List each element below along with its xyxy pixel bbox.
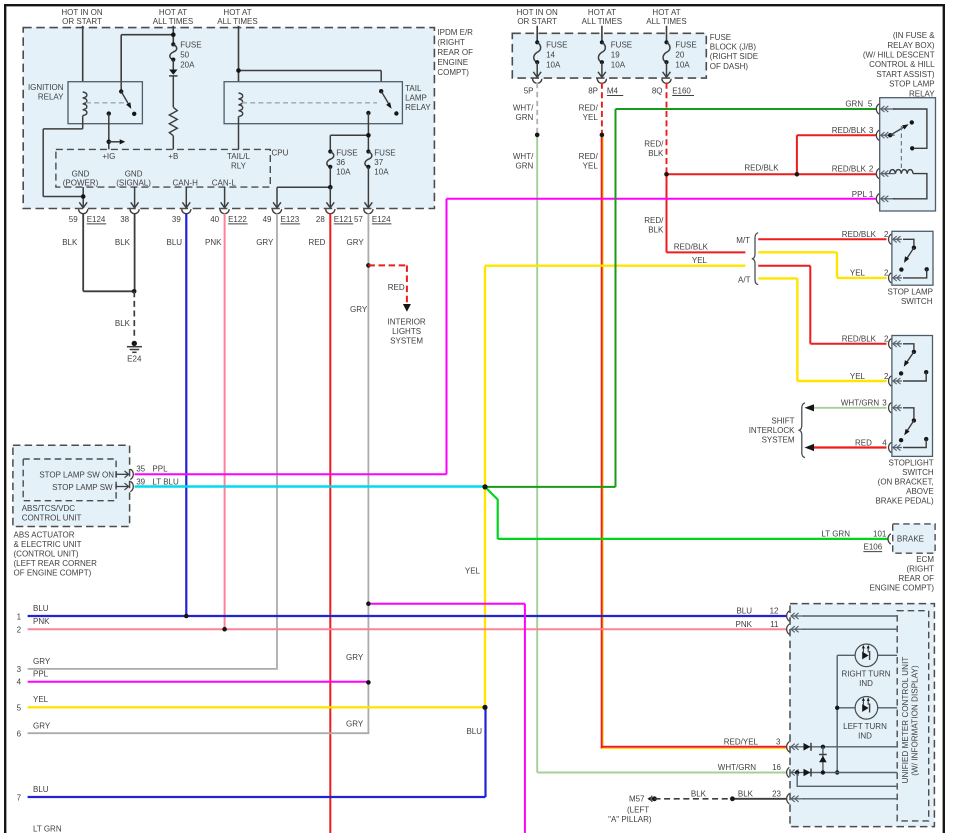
svg-text:5P: 5P [524,86,534,95]
pin TAIL/L RLY [227,152,251,170]
brace shift interlock [798,403,805,458]
diode D4 vertical [819,747,827,773]
stop lamp relay internal contact wiring [893,109,927,151]
connector M57 (left A pillar) [608,795,657,825]
fuse 19 10A [598,40,632,69]
node HOT AT ALL TIMES (fuse 50) [153,8,193,26]
svg-text:5: 5 [17,704,22,713]
svg-text:STOP LAMP: STOP LAMP [888,287,934,296]
svg-text:RELAY: RELAY [909,89,935,98]
svg-text:39: 39 [136,478,145,487]
svg-text:SWITCH: SWITCH [901,297,933,306]
svg-text:19: 19 [611,51,620,60]
svg-text:ALL TIMES: ALL TIMES [646,17,686,26]
wire RED/BLK junction up to relay pin 3 [797,135,876,174]
svg-text:10A: 10A [374,168,389,177]
wire LT BLU from ABS pin 39 [135,485,485,487]
svg-text:FUSE: FUSE [180,41,201,50]
unified meter pin 11 connector [787,624,898,634]
label TAIL LAMP RELAY [405,84,431,112]
wire YEL A/T to stoplight switch [758,278,886,381]
svg-text:CONTROL & HILL: CONTROL & HILL [869,60,935,69]
svg-text:(RIGHT: (RIGHT [437,38,465,47]
svg-text:2: 2 [884,268,889,277]
svg-text:+IG: +IG [102,152,115,161]
wire line 6 GRY [17,721,370,738]
wire BLK to unified meter pin 23 [732,798,786,800]
svg-text:WHT/: WHT/ [513,152,534,161]
wire GRY from connector 49 [256,213,277,669]
svg-text:E24: E24 [127,354,142,363]
node junction fuse 36/37 feed [330,133,370,152]
arrow to interior lights system [403,304,411,312]
label UNIFIED METER CONTROL UNIT (W/ INFORMATION DISPLAY) [901,657,920,784]
svg-text:TAIL: TAIL [405,84,422,93]
stop lamp switch pin 2 bottom connector [850,268,902,283]
svg-text:LT BLU: LT BLU [152,478,179,487]
stop lamp relay pin 3 connector [832,126,895,140]
svg-text:RELAY: RELAY [405,103,431,112]
wire line 7 BLU [17,785,486,802]
svg-text:FUSE: FUSE [611,41,632,50]
label LEFT TURN IND [843,722,887,741]
node junction line 2 / CAN-L PNK [222,627,227,632]
wire diode to resistor [172,76,174,107]
svg-text:HOT IN ON: HOT IN ON [517,8,558,17]
pin GND (POWER) [63,169,99,187]
node junction M57 BLK [730,796,735,801]
svg-text:BLK: BLK [691,789,707,798]
svg-text:BLU: BLU [33,604,49,613]
wire YEL vertical to line 5 [465,266,485,708]
svg-text:10A: 10A [546,61,561,70]
stoplight switch pin RED/BLK 2 connector [842,335,902,349]
stop lamp switch S1 box [892,231,933,285]
svg-text:RIGHT TURN: RIGHT TURN [841,669,890,678]
CPU box [56,149,270,187]
svg-text:ECM: ECM [916,555,934,564]
connector 38 (IPDM) [120,209,139,224]
wire branch to ignition relay switch [121,35,173,92]
stoplight switch lower contacts [899,408,929,448]
wire GND(POWER) to connector 59 [81,187,86,206]
svg-text:3: 3 [882,399,887,408]
connector 40 E122 (IPDM) [210,209,247,224]
svg-text:GRN: GRN [516,113,534,122]
wire RED/BLK junction to relay pin 2 [797,173,876,175]
svg-text:SHIFT: SHIFT [771,416,794,425]
svg-text:FUSE: FUSE [675,41,696,50]
svg-text:INTERIOR: INTERIOR [387,317,425,326]
svg-text:RED: RED [309,238,326,247]
right turn indicator lamp [837,644,897,667]
svg-text:PPL: PPL [33,669,49,678]
svg-text:RED/BLK: RED/BLK [674,243,709,252]
stop lamp relay pin 5 connector [876,104,894,114]
svg-text:HOT AT: HOT AT [159,8,187,17]
pin +B [168,152,178,161]
label RIGHT TURN IND [841,669,890,688]
connector arrows into IPDM bottom connectors [79,202,372,208]
svg-text:7: 7 [17,793,22,802]
svg-text:BLU: BLU [736,607,752,616]
svg-text:RED/BLK: RED/BLK [832,164,867,173]
wire CAN-L to connector 40 [224,187,226,206]
svg-text:GRN: GRN [516,161,534,170]
svg-text:YEL: YEL [583,113,599,122]
unified meter pin 16 connector (WHT/GRN) [718,763,805,777]
connector 8Q E160 [652,79,694,96]
svg-text:57: 57 [354,215,363,224]
svg-text:4: 4 [882,438,887,447]
tail lamp relay actuator dashed link [242,102,377,104]
label IPDM E/R [437,28,473,77]
node junction RED/BLK split [664,172,669,177]
wire line 2 PNK to unified meter pin 11 [17,617,787,634]
pin CAN-H [173,178,199,187]
svg-text:STOPLIGHT: STOPLIGHT [888,458,933,467]
svg-text:38: 38 [120,215,129,224]
diode D3 pin 16 [795,769,897,777]
ABS pin 39 STOP LAMP SW [52,478,179,492]
connector 39 (IPDM) [172,209,191,224]
svg-text:LT GRN: LT GRN [33,825,62,834]
wire GRN to stop lamp relay pin 5 [616,100,877,110]
svg-text:BLK: BLK [115,238,131,247]
wire ignition relay output to +IG [108,114,110,150]
svg-text:RED/BLK: RED/BLK [832,126,867,135]
svg-text:ABS ACTUATOR: ABS ACTUATOR [14,531,75,540]
svg-text:HOT IN ON: HOT IN ON [61,8,102,17]
fuse 14 10A [534,40,568,69]
pin +IG [102,152,115,161]
label STOPLIGHT SWITCH (ON BRACKET, ABOVE BRAKE PEDAL) [875,458,934,505]
svg-text:(SIGNAL): (SIGNAL) [116,178,151,187]
svg-text:2: 2 [884,372,889,381]
wire BLU from connector 39 (CAN-H) [167,213,187,616]
svg-text:LEFT TURN: LEFT TURN [843,722,887,731]
node junction YEL/BLU line 5 [482,705,487,710]
svg-text:1: 1 [17,612,22,621]
svg-text:PNK: PNK [33,617,50,626]
wire RED/BLK to stop lamp relay pin 2 [667,164,796,175]
svg-text:BLK: BLK [738,789,754,798]
svg-text:3: 3 [776,737,781,746]
svg-text:3: 3 [17,665,22,674]
ABS/TCS/VDC control unit inner box [23,459,116,501]
svg-text:(CONTROL UNIT): (CONTROL UNIT) [14,550,79,559]
svg-text:16: 16 [772,763,781,772]
connector 57 E124 (IPDM) [354,209,391,224]
svg-text:OF ENGINE COMPT): OF ENGINE COMPT) [14,569,92,578]
svg-text:YEL: YEL [692,256,708,265]
stop lamp relay pin 2 connector [832,164,895,178]
svg-text:RED: RED [388,283,405,292]
unified meter pin 3 connector (RED/YEL) [724,737,805,752]
tail lamp relay switch [366,89,398,116]
svg-text:RELAY: RELAY [38,93,64,102]
wire RED dashed to interior lights system [368,265,407,303]
svg-text:36: 36 [336,158,345,167]
svg-text:YEL: YEL [33,695,49,704]
wire pin16 bypass loop [797,773,897,787]
wire WHT/GRN stoplight switch to shift interlock [814,407,887,409]
node HOT IN ON OR START (J/B) [517,8,558,26]
svg-text:BRAKE PEDAL): BRAKE PEDAL) [875,496,934,505]
wire RED/YEL dashed from 8P [579,83,602,135]
label IGNITION RELAY [28,83,64,102]
wire fuse 50 to diode [172,60,174,70]
svg-text:50: 50 [180,51,189,60]
svg-text:START ASSIST): START ASSIST) [876,70,935,79]
stop lamp switch contacts [899,239,929,278]
node +IG branch junction with right arrow [107,139,126,144]
svg-text:40: 40 [210,215,219,224]
node junction GRY to interior lights tap [366,263,371,268]
svg-text:E122: E122 [228,215,247,224]
wire turn indicator common vertical [835,655,839,774]
svg-text:SYSTEM: SYSTEM [390,336,423,345]
svg-text:LAMP: LAMP [405,94,427,103]
wire line 1 BLU to unified meter pin 12 [17,604,787,621]
svg-text:& ELECTRIC UNIT: & ELECTRIC UNIT [14,540,82,549]
svg-text:RED/: RED/ [644,216,664,225]
arrow WHT/GRN to shift interlock [805,404,815,411]
svg-text:(LEFT REAR CORNER: (LEFT REAR CORNER [14,559,98,568]
ECM BRAKE box [893,524,935,553]
svg-text:10A: 10A [675,61,690,70]
wire BLU vertical to line 7 [466,707,485,797]
svg-text:RED/: RED/ [579,103,599,112]
connector 5P (J/B) [524,79,542,96]
ground E24 [127,341,142,364]
connector 49 E123 (IPDM) [263,209,300,224]
svg-text:CPU: CPU [272,148,289,157]
label FUSE BLOCK (J/B) (RIGHT SIDE OF DASH) [710,33,758,71]
svg-text:INTERLOCK: INTERLOCK [749,426,795,435]
wire fuse 36 to connector 28 [329,187,331,206]
wire fuse 36 output [329,167,331,187]
ignition relay box [68,82,142,124]
svg-text:BLK: BLK [648,226,664,235]
wire branch to tail lamp relay switch [239,71,382,92]
node junction PPL tap to meter area [366,601,371,606]
node junction fuse 50 top [171,32,176,37]
svg-text:20: 20 [675,51,684,60]
IPDM E/R box (right rear of engine compt) [23,28,434,209]
svg-text:OR START: OR START [62,17,102,26]
ABS actuator outer box [13,445,130,526]
svg-text:ABOVE: ABOVE [906,487,934,496]
svg-text:2: 2 [884,335,889,344]
svg-text:5: 5 [868,100,873,109]
svg-text:LIGHTS: LIGHTS [392,327,421,336]
wire BLK from connector 59 [62,213,133,291]
wire ignition relay coil to GND(POWER) [43,116,83,197]
ignition relay actuator dashed link [86,102,126,104]
svg-text:BLK: BLK [62,238,78,247]
svg-text:ENGINE: ENGINE [437,58,468,67]
svg-text:GRY: GRY [350,305,368,314]
svg-text:ALL TIMES: ALL TIMES [153,17,193,26]
svg-text:E124: E124 [87,215,106,224]
svg-text:LT GRN: LT GRN [821,529,850,538]
svg-text:11: 11 [770,620,779,629]
svg-text:YEL: YEL [850,268,866,277]
svg-text:(IN FUSE &: (IN FUSE & [893,31,935,40]
svg-text:(RIGHT: (RIGHT [906,565,934,574]
connector 28 E121 (IPDM) [316,209,353,224]
svg-text:RED/: RED/ [644,140,664,149]
svg-text:35: 35 [136,464,145,473]
svg-text:REAR OF: REAR OF [898,574,934,583]
svg-text:GRY: GRY [256,238,274,247]
fuse 20 10A [663,40,697,69]
stoplight switch pin YEL 2 connector [850,372,902,386]
svg-text:PPL: PPL [152,464,168,473]
wire RED/BLK dashed from 8Q [644,83,666,175]
wire PNK from connector 40 (CAN-L) [205,213,225,629]
wire HOT AT ALL TIMES feed to fuse 50 [172,26,174,45]
wire fuse 14 to connector [533,62,541,77]
wire tail lamp relay coil to TAIL/L RLY pin [238,117,240,150]
svg-text:8Q: 8Q [652,86,663,95]
wire line 5 YEL [17,695,485,712]
node junction tail lamp feed [236,68,241,73]
svg-text:59: 59 [69,215,78,224]
pin GND (SIGNAL) [116,169,151,187]
resistor R1 [169,107,177,135]
wire PPL stop lamp relay pin1 to ABS [447,199,877,475]
wire HOT AT ALL TIMES feed to tail lamp relay coil [238,26,240,93]
svg-text:RELAY BOX): RELAY BOX) [887,41,935,50]
svg-text:8P: 8P [588,86,598,95]
node junction dot brake signal [482,484,487,489]
svg-text:39: 39 [172,215,181,224]
svg-text:CAN-L: CAN-L [212,178,237,187]
wire BLK dashed to ground [115,291,134,339]
svg-text:HOT AT: HOT AT [652,8,680,17]
svg-text:RED: RED [855,438,872,447]
label ABS/TCS/VDC CONTROL UNIT [22,504,82,523]
label INTERIOR LIGHTS SYSTEM [387,317,425,345]
fuse 37 10A [365,149,396,177]
svg-text:(POWER): (POWER) [63,178,99,187]
svg-text:FUSE: FUSE [546,41,567,50]
connector 59 E124 (IPDM) [69,209,106,224]
wire line 3 GRY [17,657,277,674]
ABS pin 35 STOP LAMP SW ON [39,464,168,479]
svg-text:PNK: PNK [736,620,753,629]
svg-text:E123: E123 [281,215,300,224]
label CPU [272,148,289,157]
wire RED/YEL to unified meter pin 3 [579,135,787,749]
svg-text:OR START: OR START [517,17,557,26]
svg-text:STOP LAMP: STOP LAMP [889,80,935,89]
brace M/T-A/T split [736,233,758,285]
fuse 36 10A [327,149,358,177]
svg-text:+B: +B [168,152,178,161]
wire GND(SIGNAL) to connector 38 [134,187,136,206]
svg-text:(RIGHT SIDE: (RIGHT SIDE [710,52,758,61]
svg-text:M/T: M/T [736,236,750,245]
svg-text:GND: GND [72,169,90,178]
svg-text:4: 4 [17,678,22,687]
diode D1 (below fuse 50) [169,70,177,76]
svg-text:12: 12 [770,607,779,616]
svg-text:49: 49 [263,215,272,224]
label (IN FUSE & RELAY BOX) (W/ HILL DESCENT CONTROL & HILL START ASSIST) STOP LAMP RELAY [863,31,935,98]
svg-text:FUSE: FUSE [374,149,395,158]
svg-text:101: 101 [873,529,887,538]
svg-text:14: 14 [546,51,555,60]
wire WHT/GRN dashed from 5P [513,83,537,135]
wire YEL M/T to stop lamp switch pin 2 [758,252,886,278]
svg-text:(ON BRACKET,: (ON BRACKET, [878,477,934,486]
wire RED/BLK down to M/T-A/T brace [644,174,745,252]
svg-text:(W/ HILL DESCENT: (W/ HILL DESCENT [863,51,935,60]
node junction 5P dashed-solid [535,133,540,138]
wire line 4 PPL [17,669,369,686]
svg-text:HOT AT: HOT AT [588,8,616,17]
stoplight switch pin WHT/GRN 3 connector [841,399,902,413]
svg-text:E160: E160 [672,86,691,95]
wire feed to fuse 14 [536,26,538,43]
node junction line 4 tap [366,680,371,685]
unified meter control unit outer box [790,604,934,827]
svg-text:ALL TIMES: ALL TIMES [217,17,257,26]
tail lamp relay coil [239,93,243,117]
unified meter inner box (label area) [897,611,929,821]
svg-text:10A: 10A [611,61,626,70]
svg-text:2: 2 [884,230,889,239]
svg-text:(W/ INFORMATION DISPLAY): (W/ INFORMATION DISPLAY) [910,665,919,776]
node junction stop lamp relay pin2/pin3 [795,172,800,177]
svg-text:"A" PILLAR): "A" PILLAR) [608,815,652,824]
svg-text:E106: E106 [864,542,883,551]
svg-text:ALL TIMES: ALL TIMES [582,17,622,26]
wire CAN-H to connector 39 [185,187,187,206]
connector 101 E106 [863,534,890,552]
svg-text:YEL: YEL [583,161,599,170]
svg-text:10A: 10A [336,168,351,177]
wire fuse 19 to connector [598,62,606,77]
wire GRY from connector 57 [346,213,368,733]
svg-text:RED/BLK: RED/BLK [744,164,779,173]
wire PPL ABS pin 35 [135,473,447,475]
node junction line 1 / CAN-H BLU [184,614,189,619]
node HOT AT ALL TIMES (fuse 19) [582,8,622,26]
wire RED/BLK M/T to stop lamp switch pin 2 [758,238,886,240]
wire resistor to +B pin [172,136,174,150]
svg-text:FUSE: FUSE [710,33,731,42]
svg-text:BRAKE: BRAKE [897,535,924,544]
svg-text:IND: IND [858,731,872,740]
wire BLK dashed M57 [655,789,733,798]
wire fuse 20 to connector [663,62,671,77]
svg-text:RED/BLK: RED/BLK [842,335,877,344]
label STOP LAMP SWITCH [888,287,934,306]
svg-text:BLU: BLU [466,727,482,736]
diode D2 pin 3 [803,743,897,751]
wire RED/BLK A/T to stoplight switch [758,266,886,344]
wire RED stoplight switch to shift interlock [814,446,887,448]
svg-text:HOT AT: HOT AT [223,8,251,17]
node junction fuse 36 output split [277,185,333,207]
label ECM (RIGHT REAR OF ENGINE COMPT) [870,555,935,593]
fuse 50 20A [170,41,202,70]
svg-text:GRY: GRY [346,720,364,729]
